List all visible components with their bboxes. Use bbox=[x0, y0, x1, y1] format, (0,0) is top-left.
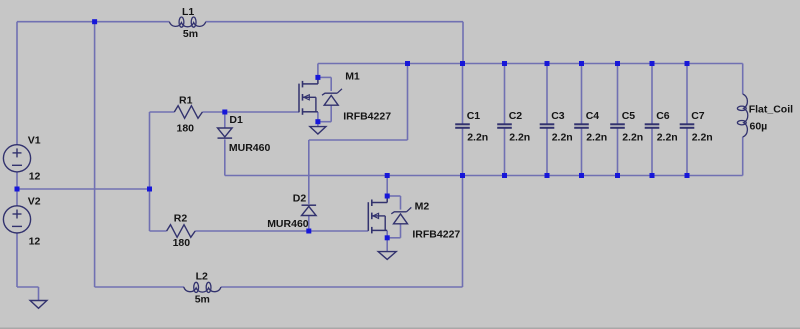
wire L2 riser bbox=[462, 176, 464, 288]
body diode of M1 bbox=[322, 89, 342, 105]
wire cross-couple horizontal bbox=[309, 139, 408, 141]
wire top rail right segment bbox=[206, 21, 463, 23]
svg-text:60µ: 60µ bbox=[750, 121, 768, 133]
value IRFB4227 of M2 bbox=[412, 228, 460, 240]
value 12 of V1 bbox=[29, 171, 41, 183]
wire C1 bottom lead bbox=[462, 128, 464, 175]
wire M2 body diode bottom lead bbox=[387, 224, 400, 238]
wire M2 body diode top jog bbox=[387, 196, 400, 210]
junction node 5 bbox=[306, 229, 311, 234]
ground under M1 bbox=[310, 127, 326, 134]
svg-text:D1: D1 bbox=[229, 114, 243, 126]
label D1 bbox=[229, 114, 243, 126]
svg-text:2.2n: 2.2n bbox=[622, 132, 643, 144]
svg-text:180: 180 bbox=[173, 237, 191, 249]
wire V2 to bottom bbox=[17, 233, 39, 301]
wire M1 body diode top jog bbox=[318, 77, 331, 91]
wire C4 bottom lead bbox=[581, 128, 583, 175]
resistor R2 bbox=[167, 225, 196, 238]
junction node 21 bbox=[615, 173, 620, 178]
label R2 bbox=[174, 213, 188, 225]
wire C7 top lead bbox=[686, 64, 688, 125]
wire C3 bottom lead bbox=[546, 128, 548, 175]
value 2.2n of C4 bbox=[586, 132, 607, 144]
wire drain1 rail bbox=[318, 63, 743, 65]
capacitor C7 bbox=[680, 124, 695, 128]
value 180 of R2 bbox=[173, 237, 191, 249]
svg-text:R1: R1 bbox=[179, 95, 193, 107]
wire D1 top lead bbox=[224, 112, 226, 128]
junction node 22 bbox=[650, 61, 655, 66]
value MUR460 of D1 bbox=[229, 142, 271, 154]
wire gate1 lead bbox=[225, 111, 299, 113]
junction node 20 bbox=[615, 61, 620, 66]
value 180 of R1 bbox=[177, 123, 195, 135]
wire gate2 lead bbox=[309, 230, 369, 232]
wire bottom rail left segment bbox=[95, 286, 184, 288]
label C2 bbox=[509, 110, 523, 122]
svg-text:2.2n: 2.2n bbox=[692, 132, 713, 144]
wire C2 top lead bbox=[504, 64, 506, 125]
junction node 19 bbox=[579, 173, 584, 178]
inductor Flat_Coil bbox=[737, 94, 747, 137]
svg-text:M2: M2 bbox=[415, 201, 430, 213]
label D2 bbox=[293, 193, 307, 205]
nmos transistor M2 bbox=[368, 196, 387, 233]
label V1 bbox=[28, 135, 41, 147]
svg-text:C6: C6 bbox=[656, 110, 670, 122]
label M1 bbox=[345, 71, 360, 83]
wire drain2 rail bbox=[225, 175, 743, 177]
wire R1 to D1 node bbox=[202, 111, 224, 113]
svg-text:MUR460: MUR460 bbox=[229, 142, 271, 154]
capacitor C3 bbox=[540, 124, 555, 128]
junction node 11 bbox=[385, 173, 390, 178]
ground under M2 bbox=[378, 252, 396, 260]
wire C2 bottom lead bbox=[504, 128, 506, 175]
junction node 7 bbox=[315, 119, 320, 124]
svg-text:12: 12 bbox=[29, 236, 41, 248]
svg-text:2.2n: 2.2n bbox=[552, 132, 573, 144]
wire top rail drop to tank bus bbox=[462, 22, 464, 64]
nmos transistor M1 bbox=[299, 77, 318, 114]
label C4 bbox=[586, 110, 600, 122]
wire M2 ground stem bbox=[386, 238, 388, 252]
wire mid node to V2 bbox=[16, 189, 18, 206]
capacitor C5 bbox=[610, 124, 625, 128]
label M2 bbox=[415, 201, 430, 213]
value 2.2n of C6 bbox=[657, 132, 678, 144]
value 12 of V2 bbox=[29, 236, 41, 248]
label V2 bbox=[28, 196, 41, 208]
capacitor C2 bbox=[497, 124, 512, 128]
svg-text:12: 12 bbox=[29, 171, 41, 183]
value 2.2n of C3 bbox=[552, 132, 573, 144]
junction node 4 bbox=[222, 110, 227, 115]
value 5m of L2 bbox=[195, 294, 210, 306]
value 5m of L1 bbox=[183, 28, 198, 40]
junction node 18 bbox=[579, 61, 584, 66]
wire D2 bottom lead bbox=[308, 216, 310, 232]
junction node 24 bbox=[685, 61, 690, 66]
wire second vertical feed bbox=[94, 22, 96, 287]
value IRFB4227 of M1 bbox=[343, 110, 391, 122]
svg-text:2.2n: 2.2n bbox=[467, 132, 488, 144]
svg-text:C3: C3 bbox=[551, 110, 565, 122]
resistor R1 bbox=[174, 106, 202, 119]
wire gate column bbox=[149, 112, 151, 231]
label C5 bbox=[622, 110, 636, 122]
wire M1 source lead bbox=[317, 112, 319, 122]
wire C4 top lead bbox=[581, 64, 583, 125]
svg-text:C4: C4 bbox=[586, 110, 600, 122]
junction node 17 bbox=[545, 173, 550, 178]
junction node 12 bbox=[460, 61, 465, 66]
wire C6 top lead bbox=[651, 64, 653, 125]
svg-text:R2: R2 bbox=[174, 213, 188, 225]
svg-text:C2: C2 bbox=[509, 110, 523, 122]
wire top rail left segment bbox=[17, 21, 169, 23]
junction node 3 bbox=[147, 187, 152, 192]
bottom window edge bbox=[0, 328, 800, 329]
svg-text:MUR460: MUR460 bbox=[267, 218, 309, 230]
svg-text:2.2n: 2.2n bbox=[657, 132, 678, 144]
svg-text:5m: 5m bbox=[183, 28, 198, 40]
wire C3 top lead bbox=[546, 64, 548, 125]
junction node 16 bbox=[545, 61, 550, 66]
label C3 bbox=[551, 110, 565, 122]
value MUR460 of D2 bbox=[267, 218, 309, 230]
wire cross-couple riser bbox=[407, 64, 409, 141]
svg-text:2.2n: 2.2n bbox=[509, 132, 530, 144]
capacitor C1 bbox=[455, 124, 470, 128]
wire R2 left lead bbox=[150, 230, 167, 232]
label C7 bbox=[691, 110, 705, 122]
voltage source V2 bbox=[3, 206, 30, 233]
svg-text:C7: C7 bbox=[691, 110, 705, 122]
label L2 bbox=[196, 271, 208, 283]
inductor L1 bbox=[169, 17, 206, 27]
junction node 1 bbox=[92, 19, 97, 24]
wire C7 bottom lead bbox=[686, 128, 688, 175]
svg-text:D2: D2 bbox=[293, 193, 307, 205]
junction node 10 bbox=[405, 61, 410, 66]
wire coil right column bottom bbox=[742, 137, 744, 176]
junction node 2 bbox=[15, 187, 20, 192]
label C6 bbox=[656, 110, 670, 122]
value 60u of Flat_Coil bbox=[750, 121, 768, 133]
junction node 13 bbox=[460, 173, 465, 178]
wire M2 source lead bbox=[386, 231, 388, 238]
svg-text:5m: 5m bbox=[195, 294, 210, 306]
ground under V2 bbox=[30, 301, 47, 309]
wire D1 bottom lead bbox=[224, 139, 226, 175]
diode D2 bbox=[302, 205, 317, 215]
diode D1 bbox=[218, 128, 233, 138]
svg-text:2.2n: 2.2n bbox=[586, 132, 607, 144]
value 2.2n of C1 bbox=[467, 132, 488, 144]
svg-text:L2: L2 bbox=[196, 271, 208, 283]
wire bottom rail right segment bbox=[221, 286, 463, 288]
wire D2 top lead bbox=[308, 140, 310, 204]
value 2.2n of C7 bbox=[692, 132, 713, 144]
body diode of M2 bbox=[391, 207, 411, 223]
label R1 bbox=[179, 95, 193, 107]
junction node 8 bbox=[385, 194, 390, 199]
label C1 bbox=[467, 110, 481, 122]
svg-text:V2: V2 bbox=[28, 196, 41, 208]
wire M1 drain feed bbox=[317, 64, 319, 78]
wire C5 bottom lead bbox=[617, 128, 619, 175]
wire R2 to D2 node bbox=[195, 230, 309, 232]
wire coil right column top bbox=[742, 64, 744, 95]
junction node 15 bbox=[502, 173, 507, 178]
wire M2 drain feed bbox=[386, 176, 388, 197]
label L1 bbox=[182, 6, 194, 18]
svg-text:M1: M1 bbox=[345, 71, 360, 83]
junction node 6 bbox=[315, 75, 320, 80]
capacitor C4 bbox=[574, 124, 589, 128]
svg-text:IRFB4227: IRFB4227 bbox=[412, 228, 460, 240]
wire C1 top lead bbox=[462, 64, 464, 125]
svg-text:Flat_Coil: Flat_Coil bbox=[749, 104, 793, 116]
inductor L2 bbox=[184, 282, 221, 292]
svg-text:180: 180 bbox=[177, 123, 195, 135]
wire C6 bottom lead bbox=[651, 128, 653, 175]
value 2.2n of C2 bbox=[509, 132, 530, 144]
junction node 14 bbox=[502, 61, 507, 66]
wire mid rail bbox=[17, 188, 150, 190]
capacitor C6 bbox=[645, 124, 660, 128]
value 2.2n of C5 bbox=[622, 132, 643, 144]
svg-text:C1: C1 bbox=[467, 110, 481, 122]
wire V1 to mid node bbox=[16, 172, 18, 189]
junction node 25 bbox=[685, 173, 690, 178]
wire R1 left lead bbox=[150, 111, 175, 113]
junction node 9 bbox=[385, 235, 390, 240]
wire left supply column bbox=[16, 22, 18, 145]
wire M1 body diode bottom lead bbox=[318, 105, 331, 122]
svg-text:IRFB4227: IRFB4227 bbox=[343, 110, 391, 122]
svg-text:L1: L1 bbox=[182, 6, 194, 18]
svg-text:V1: V1 bbox=[28, 135, 41, 147]
wire C5 top lead bbox=[617, 64, 619, 125]
wire M1 ground stem bbox=[317, 122, 319, 127]
junction node 23 bbox=[650, 173, 655, 178]
svg-text:C5: C5 bbox=[622, 110, 636, 122]
voltage source V1 bbox=[3, 145, 30, 172]
label Flat_Coil bbox=[749, 104, 793, 116]
